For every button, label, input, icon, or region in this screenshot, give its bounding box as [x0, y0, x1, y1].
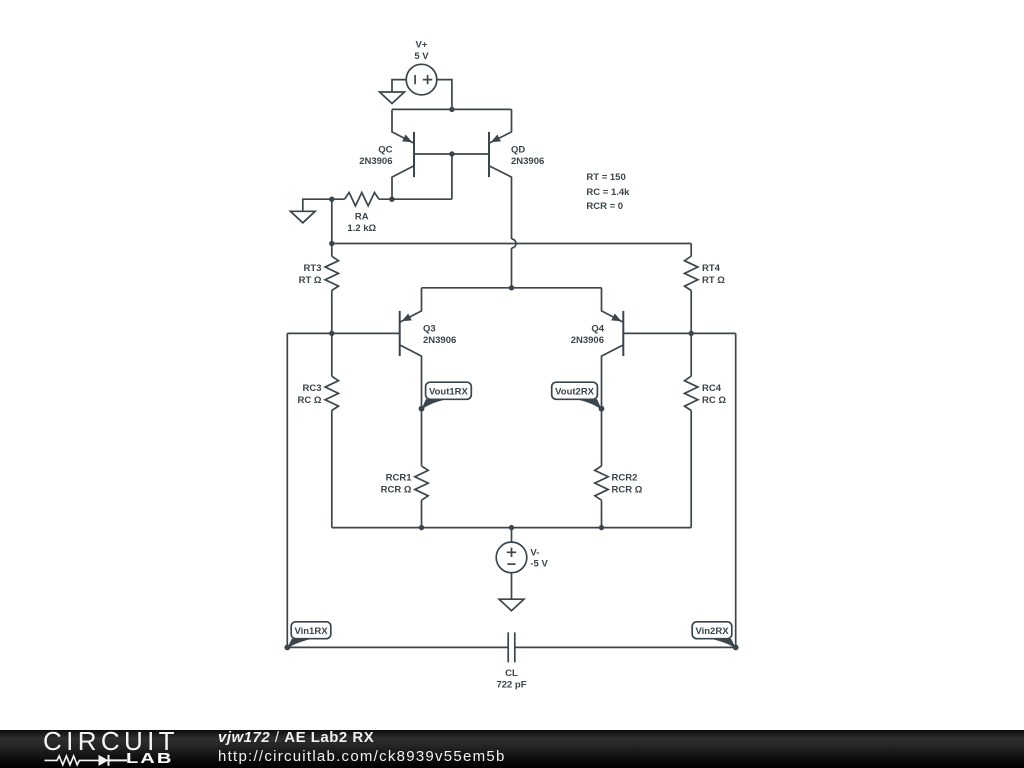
- node dot emitter rail: [509, 285, 514, 290]
- wire bottom inner rail: [332, 527, 691, 529]
- svg-text:RC Ω: RC Ω: [298, 395, 322, 406]
- ground G2 (RA left): [290, 211, 315, 223]
- svg-text:RCR Ω: RCR Ω: [612, 484, 643, 495]
- svg-text:RA: RA: [355, 212, 369, 223]
- svg-text:2N3906: 2N3906: [511, 156, 544, 167]
- transistor Q4 2N3906: [622, 311, 624, 356]
- ground G3: [499, 599, 524, 611]
- svg-text:2N3906: 2N3906: [359, 156, 392, 167]
- svg-text:722 pF: 722 pF: [496, 680, 526, 691]
- svg-text:1.2 kΩ: 1.2 kΩ: [347, 223, 376, 234]
- node dot RCR1 bottom: [419, 525, 424, 530]
- wire hop center column: [512, 239, 517, 248]
- voltage source V1 (V+ 5V): [406, 64, 437, 95]
- capacitor CL 722pF: [508, 632, 515, 662]
- svg-text:Q4: Q4: [591, 324, 604, 335]
- svg-text:RC4: RC4: [702, 383, 722, 394]
- svg-text:Vout1RX: Vout1RX: [429, 387, 469, 398]
- svg-text:CL: CL: [505, 668, 518, 679]
- resistor RCR2: [601, 409, 603, 466]
- wire QC-QD base rail: [414, 153, 489, 155]
- wire V+ left to ground: [392, 80, 406, 92]
- node dot Q3 base / RT3: [329, 331, 334, 336]
- svg-text:5 V: 5 V: [414, 51, 429, 62]
- wire center column to emitter rail: [511, 248, 513, 288]
- flag Vout2RX: [599, 406, 605, 412]
- wire RT4 bottom: [690, 291, 692, 334]
- wire bottom outer rail left: [287, 646, 508, 648]
- node dot RCR2 bottom: [599, 525, 604, 530]
- svg-text:RC Ω: RC Ω: [702, 395, 726, 406]
- resistor RT4: [690, 244, 692, 257]
- wire Q3 base to left rail: [287, 332, 399, 334]
- svg-text:RCR2: RCR2: [612, 473, 638, 484]
- svg-text:Vout2RX: Vout2RX: [555, 387, 595, 398]
- svg-text:QD: QD: [511, 145, 525, 156]
- svg-text:QC: QC: [378, 145, 392, 156]
- resistor RC4: [690, 333, 692, 376]
- wire Q4 base to right rail: [623, 332, 735, 334]
- node dot RT3 top at RA wire: [329, 197, 334, 202]
- svg-text:RT3: RT3: [304, 263, 322, 274]
- node V+ label: [414, 40, 429, 62]
- annotation RT/RC/RCR values: [586, 172, 630, 212]
- wire emitter rail Q3-Q4: [422, 287, 602, 289]
- svg-text:V-: V-: [530, 547, 539, 558]
- node dot V- top: [509, 525, 514, 530]
- wire bottom outer rail right: [515, 646, 736, 648]
- svg-text:Vin1RX: Vin1RX: [294, 626, 328, 637]
- svg-text:RC3: RC3: [302, 383, 321, 394]
- wire right rail: [735, 333, 737, 647]
- resistor RC3: [331, 333, 333, 376]
- svg-text:V+: V+: [416, 40, 428, 51]
- wire base down to RA node: [451, 154, 453, 199]
- wire ground stub: [303, 199, 345, 211]
- flag Vin2RX: [733, 645, 739, 651]
- resistor RCR1: [421, 409, 423, 466]
- transistor QC 2N3906: [413, 132, 415, 177]
- transistor QD 2N3906: [488, 132, 490, 177]
- svg-text:Vin2RX: Vin2RX: [695, 626, 729, 637]
- svg-text:RT = 150: RT = 150: [586, 172, 625, 183]
- resistor RT3: [325, 256, 338, 290]
- flag Vin1RX: [284, 645, 290, 651]
- wire V- to ground: [511, 573, 513, 600]
- svg-text:RCR Ω: RCR Ω: [381, 484, 412, 495]
- svg-text:RC = 1.4k: RC = 1.4k: [586, 187, 630, 198]
- svg-text:2N3906: 2N3906: [423, 335, 456, 346]
- svg-text:RT4: RT4: [702, 263, 721, 274]
- voltage source V2 (V- -5V): [511, 528, 513, 543]
- node dot base rail: [449, 151, 454, 156]
- transistor Q3 2N3906: [399, 311, 401, 356]
- wire V+ right down to mirror rail: [437, 80, 452, 110]
- wire left rail: [286, 333, 288, 647]
- svg-text:Q3: Q3: [423, 324, 436, 335]
- node dot QC collector: [389, 197, 394, 202]
- svg-text:RCR1: RCR1: [386, 473, 413, 484]
- svg-text:RT Ω: RT Ω: [299, 275, 322, 286]
- node dot top rail left: [329, 241, 334, 246]
- wire mirror top rail: [392, 108, 512, 110]
- wire RA right to QC collector/base node: [379, 198, 452, 200]
- wire RT3 column top: [331, 199, 333, 256]
- resistor RA 1.2k: [345, 193, 379, 206]
- svg-text:RCR = 0: RCR = 0: [586, 201, 623, 212]
- node dot Q4 base / RT4: [689, 331, 694, 336]
- wire top rail: [332, 243, 691, 245]
- node dot mirror top: [449, 107, 454, 112]
- ground G1: [380, 92, 405, 104]
- svg-text:2N3906: 2N3906: [571, 335, 604, 346]
- wire RT3 bottom: [331, 291, 333, 334]
- svg-text:-5 V: -5 V: [530, 559, 548, 570]
- svg-text:RT Ω: RT Ω: [702, 275, 725, 286]
- flag Vout1RX: [419, 406, 425, 412]
